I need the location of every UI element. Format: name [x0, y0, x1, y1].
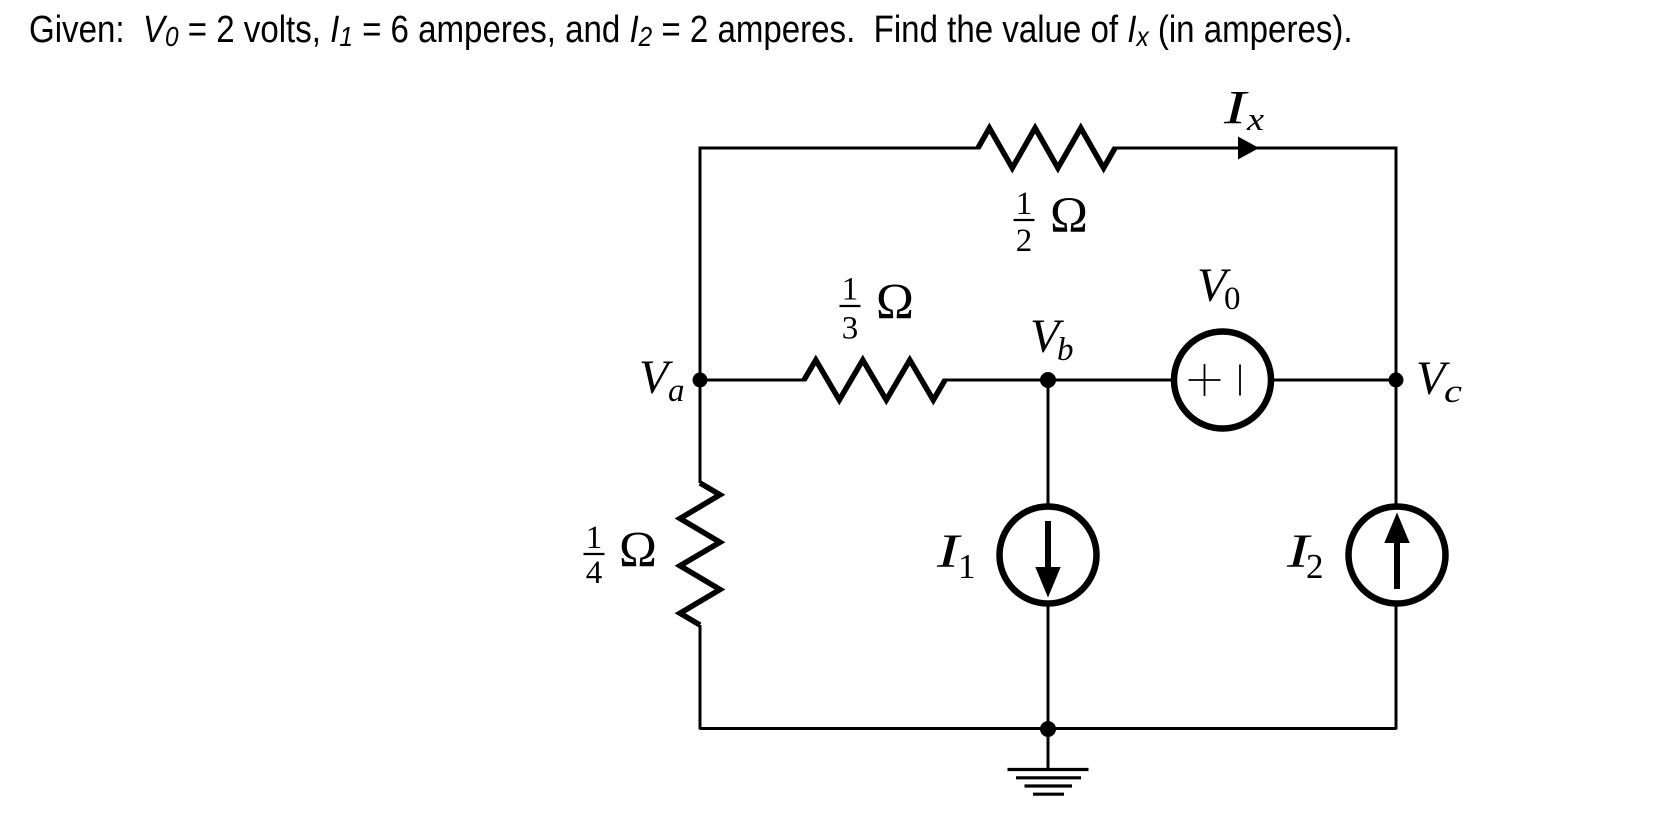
- svg-text:Ω: Ω: [619, 523, 657, 579]
- wire: bottom horizontal: [700, 727, 1396, 730]
- svg-text:4: 4: [586, 555, 603, 591]
- svg-text:x: x: [1246, 102, 1265, 138]
- svg-text:1: 1: [842, 272, 859, 308]
- wire: right vertical: [1395, 147, 1398, 730]
- node Vc (junction dot): [1389, 373, 1404, 388]
- svg-text:1: 1: [586, 520, 603, 556]
- node: ground junction dot on bottom wire: [1040, 721, 1056, 737]
- wire: middle horizontal, Va to resistor: [700, 379, 806, 382]
- node Vb (junction dot): [1040, 372, 1056, 388]
- wire: left vertical (bottom part): [699, 625, 702, 730]
- label V0: [1197, 259, 1241, 317]
- current arrow Ix on top wire: [1238, 137, 1259, 160]
- svg-text:2: 2: [1016, 223, 1033, 259]
- svg-text:c: c: [1444, 374, 1462, 410]
- wire: middle vertical branch (Vb down to bottom wire): [1047, 380, 1050, 728]
- label Vb: [1030, 310, 1074, 368]
- svg-text:b: b: [1057, 332, 1074, 368]
- label I1: [936, 525, 976, 586]
- svg-text:3: 3: [842, 311, 859, 347]
- resistor 1/4 ohm (left, vertical zigzag): [680, 483, 720, 625]
- svg-text:2: 2: [1306, 547, 1324, 586]
- current source I1 (circle with down arrow): [1000, 507, 1097, 604]
- wire: top-left horizontal segment: [700, 147, 980, 150]
- value label 1/2 ohm: [1014, 186, 1088, 259]
- label I2: [1286, 525, 1324, 586]
- svg-text:Ω: Ω: [876, 275, 914, 331]
- V0 minus bar (vertical): [1239, 365, 1241, 396]
- resistor 1/2 ohm (top, horizontal zigzag): [978, 128, 1115, 168]
- V0 plus sign: [1189, 364, 1221, 396]
- svg-text:I: I: [1223, 82, 1249, 135]
- wire: top-right horizontal segment: [1113, 147, 1398, 150]
- wire: middle horizontal, resistor to Vc: [943, 379, 1396, 382]
- svg-text:1: 1: [1016, 186, 1033, 222]
- resistor 1/3 ohm (middle, horizontal zigzag): [804, 360, 945, 400]
- ground symbol: [1008, 728, 1089, 794]
- value label 1/3 ohm: [840, 272, 914, 347]
- svg-text:1: 1: [958, 547, 976, 586]
- current source I2 (circle with up arrow): [1349, 507, 1446, 604]
- voltage source V0 (circle): [1174, 332, 1271, 429]
- value label 1/4 ohm: [584, 520, 657, 591]
- label Ix: [1223, 82, 1265, 139]
- label Vc: [1416, 352, 1462, 410]
- node Va (junction dot): [693, 373, 708, 388]
- label Va: [639, 351, 685, 409]
- problem statement text: [29, 11, 1353, 52]
- svg-text:0: 0: [1224, 281, 1241, 317]
- svg-text:Ω: Ω: [1050, 188, 1088, 244]
- wire: left vertical (top part): [699, 147, 702, 484]
- svg-text:a: a: [668, 373, 685, 409]
